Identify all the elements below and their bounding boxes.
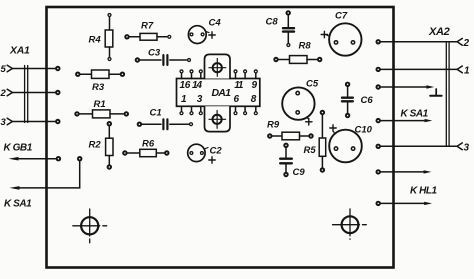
- resistor R3: [80, 70, 120, 78]
- XA1 pin 2: [0, 88, 56, 99]
- capacitor C10: [329, 125, 362, 162]
- resistor R4: [105, 17, 113, 57]
- svg-text:3: 3: [1, 117, 7, 128]
- svg-text:C4: C4: [209, 18, 222, 29]
- svg-text:C8: C8: [266, 17, 279, 28]
- XA1 connector bus: [25, 66, 28, 123]
- svg-text:XA2: XA2: [428, 26, 450, 38]
- terminal pad K GB1: [56, 156, 61, 161]
- resistor R1: [79, 110, 124, 118]
- mounting hole left: [73, 209, 107, 243]
- svg-text:K HL1: K HL1: [410, 186, 438, 197]
- board outline: [47, 7, 394, 268]
- wire to ground: [381, 85, 435, 88]
- capacitor C3: [140, 55, 187, 65]
- svg-text:C7: C7: [335, 11, 348, 22]
- capacitor C8: [283, 15, 294, 43]
- svg-text:9: 9: [252, 80, 258, 91]
- svg-text:R3: R3: [92, 82, 105, 93]
- svg-text:R7: R7: [141, 21, 154, 32]
- svg-text:C3: C3: [148, 48, 161, 59]
- svg-text:XA1: XA1: [9, 45, 30, 57]
- XA2 connector bus: [446, 42, 449, 147]
- DA1 bottom tab: [205, 106, 231, 131]
- svg-text:R1: R1: [94, 99, 106, 110]
- DA1 bottom pins: [182, 106, 256, 111]
- resistor R6: [127, 149, 165, 156]
- XA1 pin 5: [1, 64, 56, 75]
- wire to XA2 pin 1: [381, 66, 463, 73]
- terminal pad pin2: [55, 90, 60, 95]
- ground symbol: [430, 89, 441, 96]
- svg-text:R4: R4: [89, 35, 102, 46]
- svg-text:14: 14: [192, 80, 203, 91]
- svg-text:R8: R8: [299, 41, 312, 52]
- wire arrow row6: [381, 170, 432, 173]
- DA1 pin labels: [180, 80, 258, 105]
- svg-text:6: 6: [234, 94, 240, 105]
- capacitor C6: [342, 87, 353, 114]
- wire arrow row7 K HL1: [381, 202, 433, 205]
- svg-text:1: 1: [464, 65, 470, 76]
- svg-text:C6: C6: [361, 95, 374, 106]
- wire K SA1: [10, 161, 80, 190]
- svg-text:3: 3: [464, 142, 470, 153]
- wire K GB1 arrow: [9, 157, 56, 161]
- svg-text:8: 8: [251, 94, 257, 105]
- capacitor C7: [321, 23, 361, 55]
- XA1 pin 3: [1, 117, 56, 128]
- DA1 top pins: [182, 74, 256, 79]
- op-amp / IC DA1 body: [177, 79, 260, 107]
- svg-text:5: 5: [1, 64, 7, 75]
- capacitor C4: [188, 26, 215, 44]
- terminal pad pin5: [55, 66, 60, 71]
- svg-text:R6: R6: [142, 139, 155, 150]
- resistor R5: [319, 115, 326, 168]
- svg-text:2: 2: [0, 88, 7, 99]
- capacitor C9: [280, 148, 292, 173]
- capacitor C5: [282, 87, 314, 125]
- svg-text:C10: C10: [355, 125, 373, 136]
- capacitor C1: [142, 119, 189, 129]
- resistor R7: [129, 33, 167, 40]
- DA1 top tab: [205, 54, 231, 78]
- svg-text:R2: R2: [89, 140, 102, 151]
- svg-text:C2: C2: [210, 146, 223, 157]
- resistor R9: [272, 132, 309, 140]
- svg-text:DA1: DA1: [212, 87, 232, 99]
- resistor R2: [106, 126, 113, 165]
- mounting hole right: [333, 209, 367, 239]
- wire K SA1 right arrow: [381, 119, 433, 122]
- node K SA1 junction: [77, 156, 82, 161]
- wire to XA2 pin 2: [381, 38, 463, 45]
- svg-text:16: 16: [180, 80, 191, 91]
- svg-text:K SA1: K SA1: [4, 199, 32, 210]
- capacitor C2: [188, 144, 216, 163]
- terminal pad pin3: [55, 119, 60, 124]
- resistor R8: [278, 56, 318, 64]
- svg-text:K SA1: K SA1: [401, 109, 429, 120]
- svg-text:R9: R9: [267, 120, 280, 131]
- svg-text:C5: C5: [306, 79, 319, 90]
- svg-text:C1: C1: [150, 108, 162, 119]
- svg-text:R5: R5: [304, 145, 317, 156]
- svg-text:C9: C9: [293, 167, 306, 178]
- svg-text:3: 3: [197, 94, 203, 105]
- svg-text:1: 1: [181, 94, 187, 105]
- svg-text:K GB1: K GB1: [4, 143, 33, 154]
- svg-text:2: 2: [463, 38, 470, 49]
- wire to XA2 pin 3: [381, 143, 463, 150]
